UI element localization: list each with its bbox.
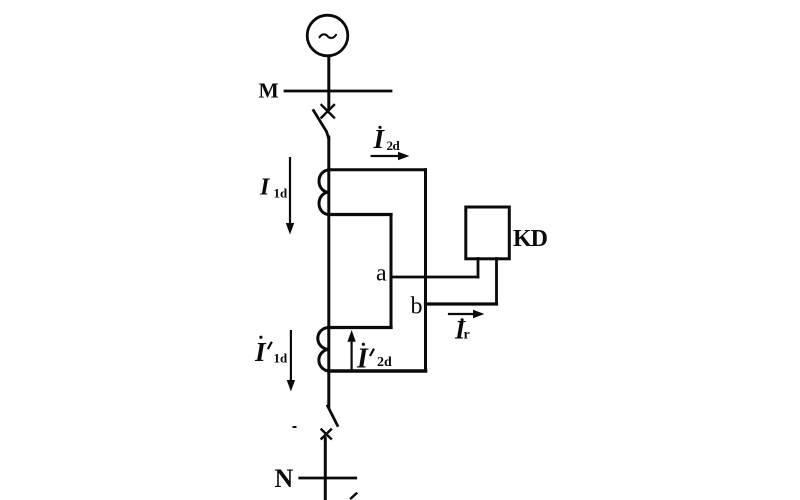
svg-text:N: N: [275, 464, 294, 493]
svg-text:2d: 2d: [387, 138, 401, 153]
svg-text:r: r: [464, 328, 470, 343]
svg-text:1d: 1d: [274, 351, 289, 366]
svg-text:I: I: [356, 344, 369, 375]
svg-text:KD: KD: [513, 226, 548, 252]
svg-text:I: I: [254, 337, 267, 367]
svg-text:2d: 2d: [377, 355, 392, 370]
svg-text:I: I: [259, 175, 271, 201]
svg-text:b: b: [411, 294, 423, 320]
svg-text:1d: 1d: [274, 186, 289, 201]
svg-text:M: M: [259, 78, 279, 102]
svg-text:a: a: [376, 261, 387, 287]
